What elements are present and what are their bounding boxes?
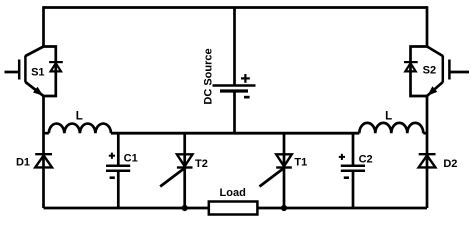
svg-text:C1: C1 [124, 152, 138, 164]
svg-text:C2: C2 [359, 153, 373, 165]
wire DC source vertical bottom [233, 91, 236, 133]
wire bottom rail right [257, 207, 427, 210]
svg-text:DC Source: DC Source [203, 48, 215, 104]
transistor S1 (IGBT) [5, 47, 44, 97]
wire right vertical top [426, 6, 429, 46]
svg-text:S1: S1 [31, 67, 44, 79]
capacitor C1 [106, 133, 130, 208]
diode on S1 branch [49, 62, 63, 71]
node T2-load junction [182, 205, 188, 211]
capacitor C2 [341, 133, 365, 208]
svg-text:Load: Load [220, 187, 246, 199]
svg-text:T2: T2 [195, 158, 208, 170]
transistor S2 (IGBT) [427, 47, 469, 97]
wire DC source vertical top [233, 8, 236, 86]
diode D2 [419, 154, 436, 167]
svg-text:T1: T1 [294, 156, 307, 168]
svg-text:S2: S2 [423, 65, 436, 77]
wire left vertical mid (S1 emitter to D1 to bottom rail) [42, 96, 45, 208]
wire S2 diode branch [411, 47, 428, 97]
diode D1 [35, 154, 52, 167]
wire bottom rail left [44, 207, 209, 210]
resistor Load box [209, 202, 258, 215]
diode on S2 branch [404, 62, 418, 71]
thyristor T1 [260, 133, 292, 208]
wire right vertical mid (S2 emitter to D2 to bottom rail) [426, 96, 429, 208]
inductor L right [359, 123, 427, 133]
battery minus sign [244, 96, 250, 99]
inductor L left [44, 124, 112, 134]
wire S1 diode branch [44, 47, 56, 97]
C2 minus sign [344, 176, 349, 179]
svg-text:D2: D2 [443, 158, 457, 170]
battery plus sign [241, 74, 250, 83]
C1 minus sign [110, 176, 115, 179]
node T1-load junction [281, 205, 287, 211]
thyristor T2 [160, 133, 192, 208]
svg-text:L: L [385, 111, 392, 123]
battery DC source [213, 86, 256, 92]
wire left vertical top [42, 6, 45, 46]
wire middle rail [111, 132, 359, 135]
C1 plus sign [109, 153, 115, 159]
svg-text:D1: D1 [16, 156, 30, 168]
C2 plus sign [339, 154, 345, 160]
wire top rail [44, 6, 428, 9]
svg-text:L: L [76, 111, 83, 123]
